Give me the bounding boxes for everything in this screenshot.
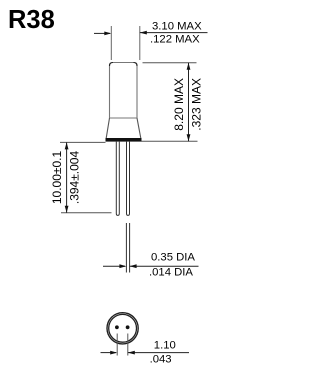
svg-text:.394±.004: .394±.004 <box>68 151 82 205</box>
extension line from pin 1 <box>116 334 118 356</box>
svg-text:1.10: 1.10 <box>154 340 176 352</box>
svg-text:0.35 DIA: 0.35 DIA <box>151 251 195 263</box>
extension line right (3.10 MAX width, top) <box>139 26 141 60</box>
svg-text:.014 DIA: .014 DIA <box>149 266 193 278</box>
arrow left (1.10 pin spacing) <box>101 352 117 354</box>
arrow left (0.35 DIA) <box>103 265 125 267</box>
svg-text:8.20 MAX: 8.20 MAX <box>172 78 186 131</box>
can base bar (solid) <box>106 138 142 142</box>
can flared skirt right edge <box>137 118 141 138</box>
pin 2 dot <box>126 325 130 329</box>
crystal can body outline <box>110 63 138 119</box>
svg-text:R38: R38 <box>8 6 55 34</box>
extension line bottom (8.20 body height) <box>142 140 198 142</box>
lead left (upper segment, outline with closed round bottom) <box>116 142 119 216</box>
svg-text:.122 MAX: .122 MAX <box>150 33 200 45</box>
bottom view inner circle <box>109 314 137 342</box>
leader line and arrow right (1.10 pin spacing) <box>128 352 189 354</box>
leader line and arrow right (0.35 DIA) <box>130 265 199 267</box>
svg-text:10.00±0.1: 10.00±0.1 <box>50 151 64 205</box>
bottom view outer circle (can wall) <box>107 313 138 344</box>
svg-text:.323 MAX: .323 MAX <box>190 78 204 131</box>
svg-text:3.10 MAX: 3.10 MAX <box>152 20 202 32</box>
lead right (upper segment, outline with closed round bottom) <box>127 142 130 216</box>
extension line left (3.10 MAX width, top) <box>110 26 112 60</box>
extension line top (10.00 lead length) <box>60 141 106 143</box>
can flared skirt left edge <box>106 118 109 138</box>
can seam line <box>110 117 138 119</box>
can top corner accents <box>110 63 138 67</box>
dimension line 10.00 with arrows <box>66 142 68 212</box>
svg-text:.043: .043 <box>150 354 172 366</box>
extension line bottom (10.00 lead length) <box>61 212 112 214</box>
pin 1 dot <box>115 325 119 329</box>
leader line and arrow right (3.10 MAX) <box>140 32 208 34</box>
lead detail (lower single lead, two parallel lines) <box>126 223 129 273</box>
extension line top (8.20 body height) <box>143 62 197 64</box>
extension line from pin 2 <box>127 334 129 356</box>
dimension line 8.20 with arrows <box>188 63 190 142</box>
arrow left (3.10 MAX) <box>94 32 110 34</box>
